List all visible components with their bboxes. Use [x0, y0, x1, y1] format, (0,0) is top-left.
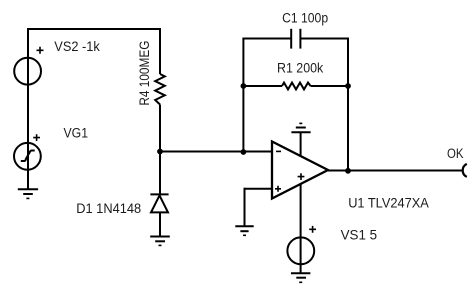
svg-text:U1 TLV247XA: U1 TLV247XA: [348, 195, 429, 210]
svg-text:C1 100p: C1 100p: [282, 11, 328, 26]
svg-text:R1 200k: R1 200k: [277, 61, 323, 76]
svg-text:VS1 5: VS1 5: [341, 227, 378, 242]
svg-text:OK: OK: [447, 146, 464, 161]
svg-text:D1 1N4148: D1 1N4148: [76, 201, 141, 216]
svg-text:VS2 -1k: VS2 -1k: [54, 39, 100, 54]
svg-text:R4 100MEG: R4 100MEG: [137, 41, 152, 106]
svg-text:VG1: VG1: [64, 126, 89, 141]
